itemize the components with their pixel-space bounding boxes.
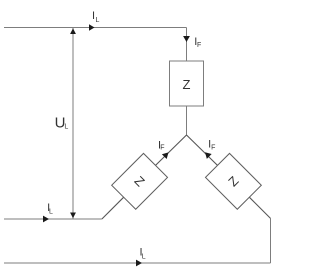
- wire left box to middle line: [102, 197, 124, 219]
- label I_L bottom: [140, 247, 146, 261]
- arrow I_L on middle line: [43, 216, 49, 223]
- label I_F top right: [194, 36, 201, 49]
- arrow U_L down: [70, 213, 76, 219]
- svg-text:L: L: [64, 123, 68, 130]
- svg-text:F: F: [211, 145, 215, 152]
- svg-text:Z: Z: [183, 77, 191, 92]
- wire top box to junction: [186, 106, 188, 135]
- wire junction to right box: [187, 135, 218, 165]
- impedance Z top (box): [170, 61, 204, 106]
- arrow I_L on top line: [89, 24, 95, 30]
- impedance Z right (rotated box): [205, 153, 261, 209]
- arrow I_F down on top-right drop: [183, 36, 190, 42]
- wire right vertical drop: [270, 218, 272, 263]
- label I_L top: [92, 10, 100, 24]
- label I_F right: [208, 139, 215, 152]
- svg-text:F: F: [197, 42, 201, 49]
- impedance Z left (rotated box): [112, 153, 168, 209]
- svg-text:F: F: [160, 145, 164, 152]
- wire middle line L2: [4, 218, 102, 220]
- wire junction to left box: [156, 135, 187, 165]
- wire U_L measurement line: [72, 28, 74, 219]
- wire bottom line L3: [4, 262, 271, 264]
- label U_L: [55, 114, 69, 131]
- label I_F left: [158, 140, 164, 152]
- arrow I_L on bottom line: [136, 260, 142, 267]
- arrow I_F left diagonal: [162, 152, 169, 159]
- svg-text:L: L: [96, 17, 100, 24]
- wire right box down-right: [249, 197, 270, 218]
- wire top line L1: [4, 27, 187, 29]
- arrow I_F right diagonal: [205, 152, 212, 159]
- wire top-right corner drop: [186, 28, 188, 62]
- label I_L middle: [47, 202, 53, 216]
- svg-text:L: L: [49, 209, 53, 216]
- arrow U_L up: [70, 28, 76, 34]
- svg-text:L: L: [142, 253, 146, 260]
